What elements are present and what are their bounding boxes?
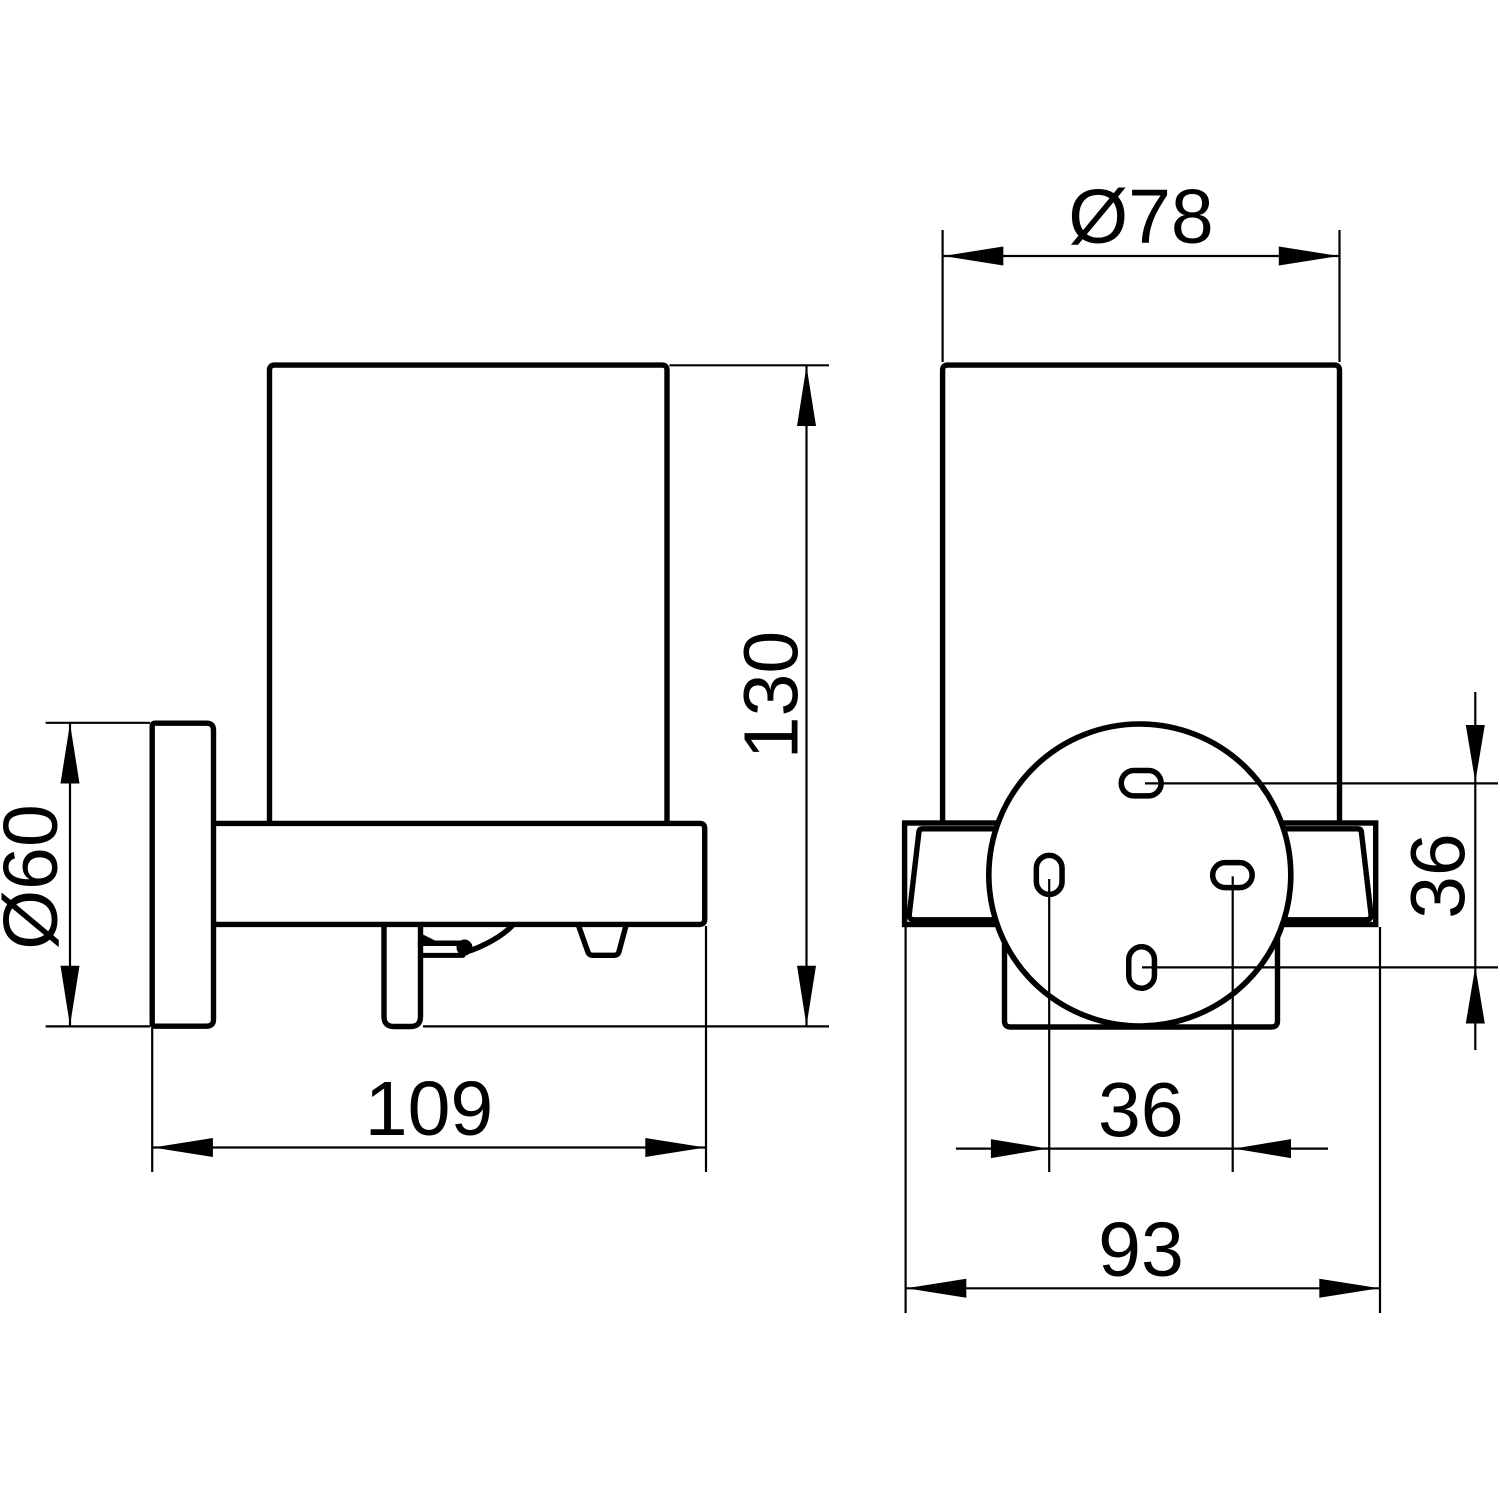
dimension Ø60: label (0, 804, 74, 950)
dimension Ø60: arrow up (61, 724, 80, 784)
svg-text:Ø78: Ø78 (1068, 174, 1214, 260)
dimension 130: label (729, 631, 815, 759)
dimension 36 right: arrow up (bottom) (1466, 967, 1485, 1024)
leader line from right slot (1232, 876, 1234, 1172)
glass tumbler (side view) (270, 365, 668, 826)
mounting slot bottom (1129, 947, 1155, 989)
dimension 109: dimension line (152, 1146, 706, 1148)
svg-text:36: 36 (1098, 1068, 1184, 1154)
leader line from top slot (1145, 782, 1498, 784)
svg-text:93: 93 (1098, 1207, 1184, 1293)
pump spout rounded tip (457, 940, 473, 956)
holder arm (front view) right chamfer (1180, 829, 1371, 920)
pump spout curve (470, 926, 513, 952)
dimension 36 bottom: arrow right (left side) (991, 1139, 1048, 1158)
holder arm (front view) left chamfer (909, 829, 1100, 920)
pump nozzle (384, 925, 421, 1027)
dimension 93: dimension line (906, 1287, 1380, 1289)
dimension 130: dimension line (805, 365, 807, 1026)
dimension Ø78: dimension line (943, 255, 1340, 257)
dimension 36 right: dimension line (1474, 692, 1476, 1050)
svg-text:130: 130 (729, 631, 815, 759)
svg-text:36: 36 (1396, 833, 1482, 919)
mounting slot right (1213, 863, 1253, 888)
wall plate (side view) (152, 723, 213, 1026)
dimension 93: arrow left (906, 1279, 966, 1298)
pump spout lever bottom line (421, 953, 464, 958)
dimension 36 bottom: label (1098, 1068, 1184, 1154)
pump spout lever top line (421, 940, 464, 946)
dimension Ø78: arrow right (1279, 247, 1339, 266)
dimension 130: arrow up (797, 366, 816, 426)
wall plate disc (front view) (989, 724, 1291, 1026)
dimension 109: arrow left (153, 1138, 213, 1157)
retaining clip (579, 926, 627, 956)
dimension Ø78: label (1068, 174, 1214, 260)
dimension Ø78: extension lines (943, 230, 1340, 362)
dimension Ø78: arrow left (943, 247, 1003, 266)
holder arm (front view) outer outline (905, 823, 1376, 925)
pump spout fillet (423, 935, 437, 942)
glass tumbler (front view) (943, 365, 1340, 823)
dimension 130: arrow down (797, 966, 816, 1026)
dimension 130: extension lines (423, 365, 829, 1026)
holder arm (side view) (212, 823, 705, 924)
pump housing (front view) (1005, 925, 1278, 1027)
dimension 36 right: arrow down (top) (1466, 725, 1485, 782)
dimension 36 right: label (1396, 833, 1482, 919)
dimension Ø60: arrow down (61, 966, 80, 1026)
svg-text:109: 109 (365, 1066, 493, 1152)
leader line from bottom slot (1142, 966, 1498, 968)
mounting slot top (1121, 771, 1161, 796)
dimension 109: label (365, 1066, 493, 1152)
mounting slot left (1036, 855, 1062, 894)
dimension 93: extension lines (906, 927, 1380, 1313)
dimension 109: extension lines (152, 926, 706, 1172)
dimension 109: arrow right (645, 1138, 705, 1157)
svg-text:Ø60: Ø60 (0, 804, 74, 950)
dimension 36 bottom: dimension line (956, 1147, 1328, 1149)
dimension 93: arrow right (1319, 1279, 1379, 1298)
dimension Ø60: extension lines (46, 723, 150, 1027)
dimension 93: label (1098, 1207, 1184, 1293)
dimension Ø60: dimension line (69, 723, 71, 1027)
leader line from left slot (1048, 879, 1050, 1172)
dimension 36 bottom: arrow left (right side) (1234, 1139, 1291, 1158)
